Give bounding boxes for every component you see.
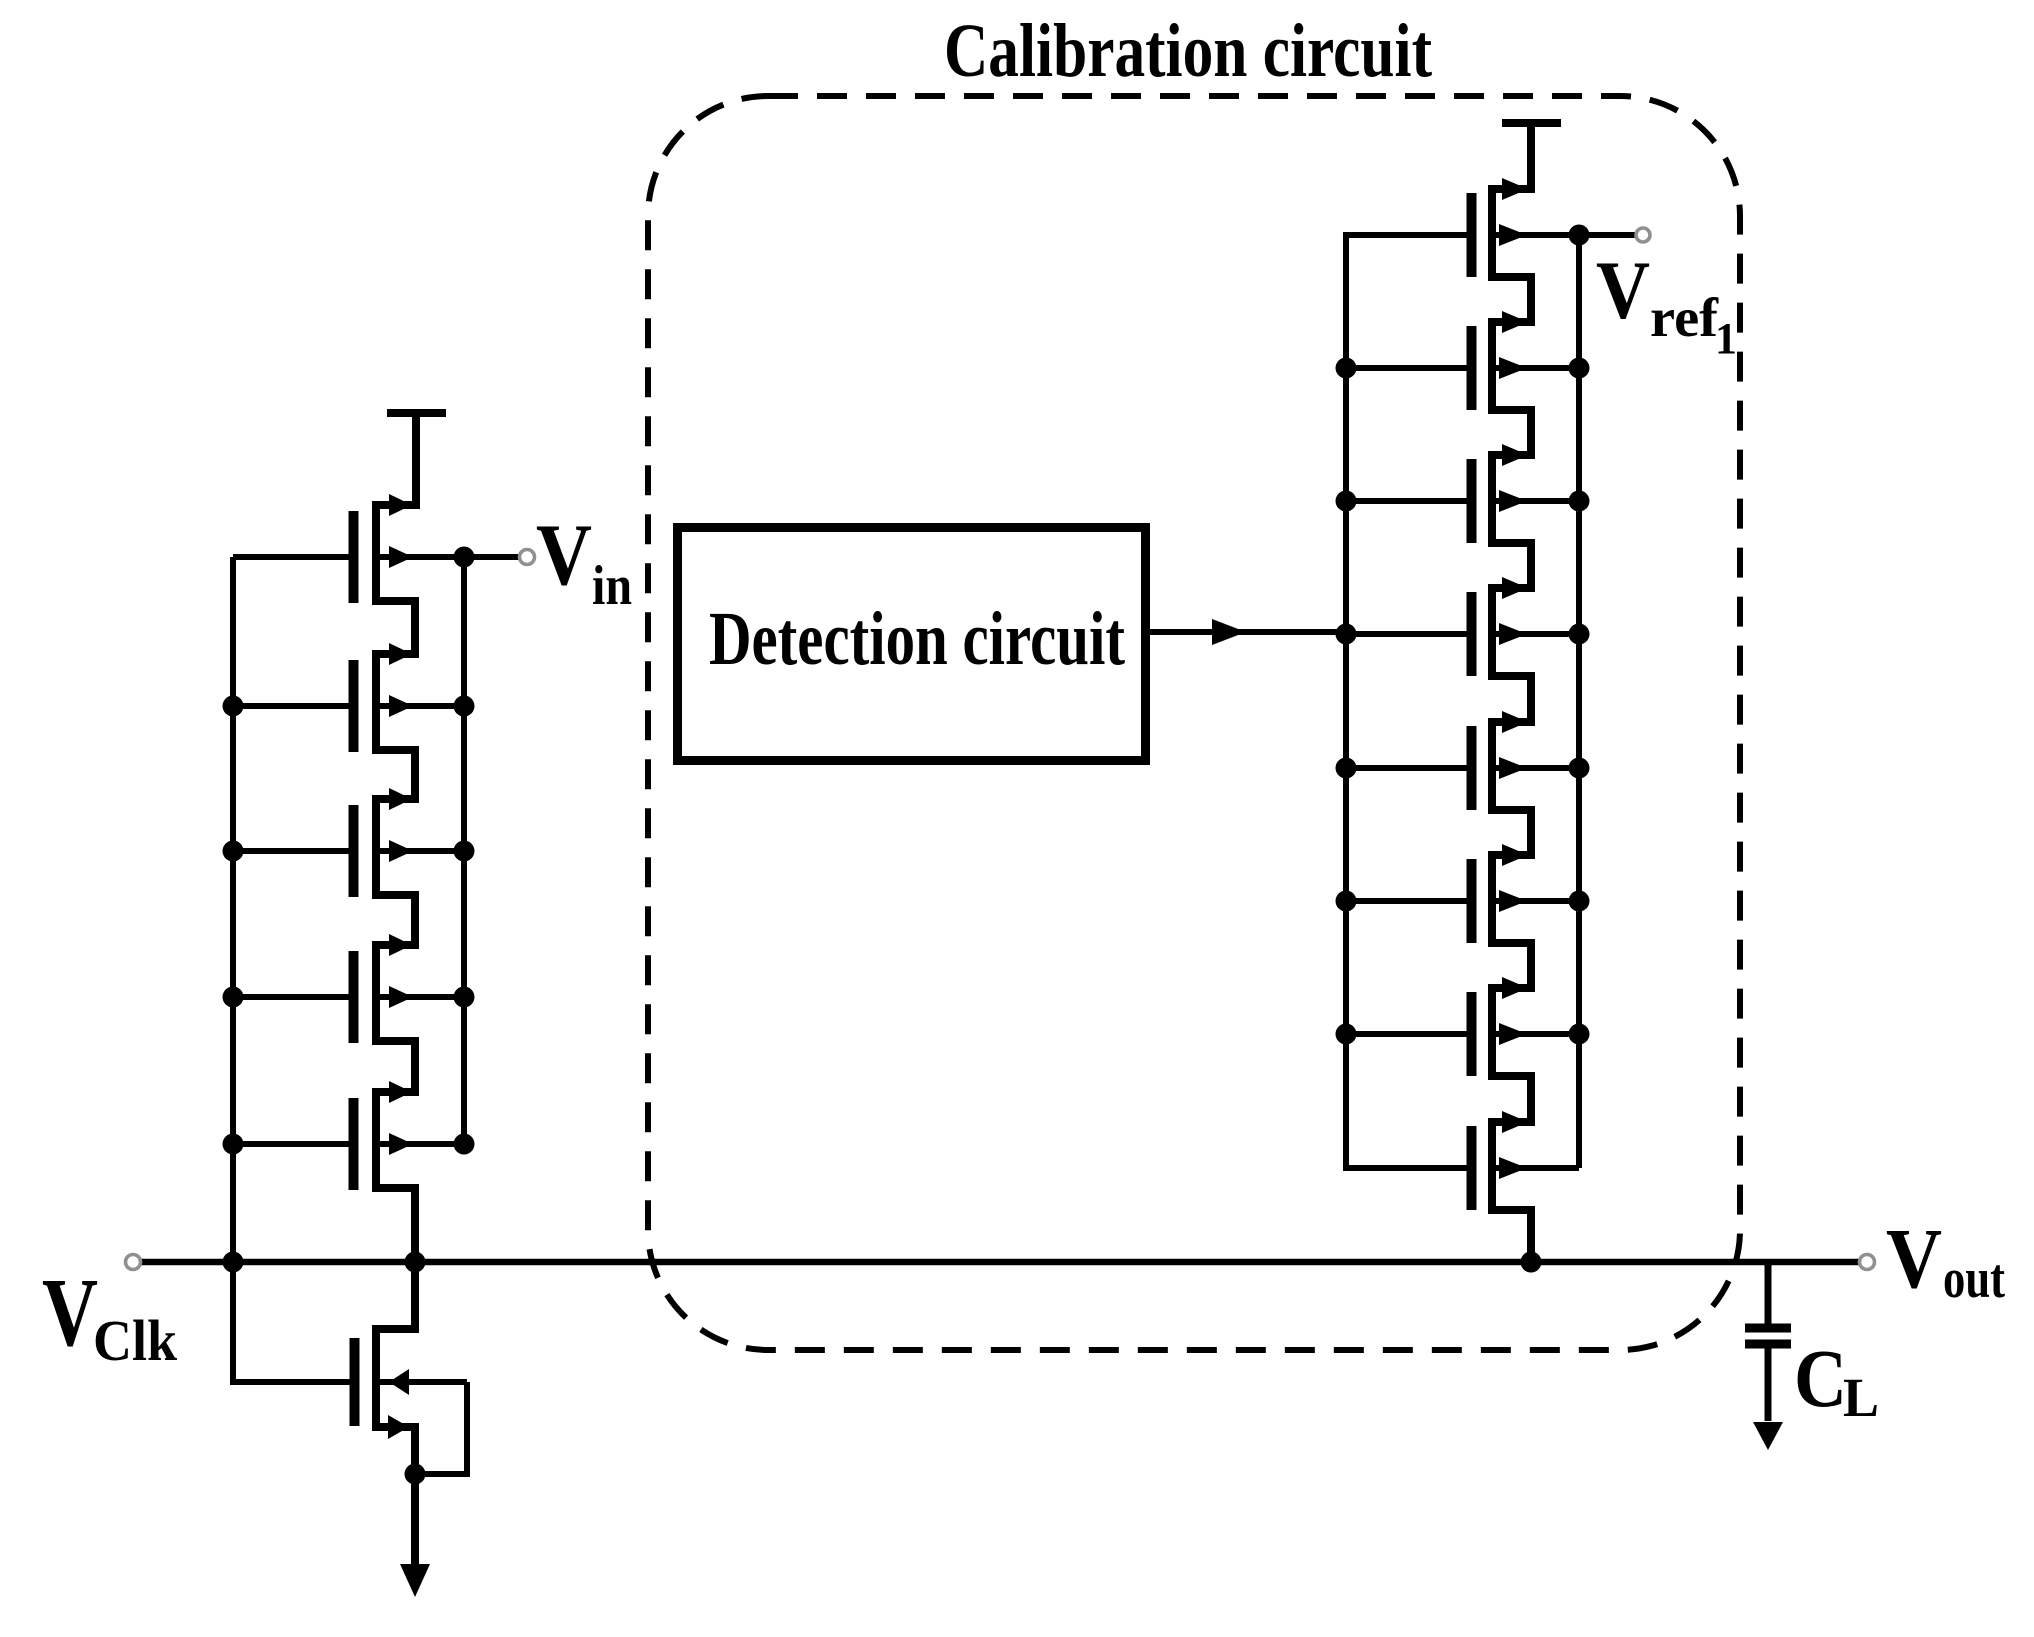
- transistor M2 (left chain, NMOS): [354, 643, 465, 752]
- svg-text:V: V: [1596, 244, 1650, 336]
- wire detection output arrow: [1146, 629, 1346, 635]
- wire V_in tap: [464, 554, 519, 560]
- wire V_Clk input line: [141, 1259, 1860, 1266]
- terminal V_out: [1860, 1255, 1875, 1270]
- ground arrow (C_L): [1753, 1422, 1783, 1450]
- terminal V_ref1: [1636, 228, 1650, 242]
- svg-text:1: 1: [1715, 314, 1737, 363]
- wire M6 source down: [372, 1427, 415, 1565]
- wire M2 source to M3 drain: [372, 750, 415, 799]
- wire M3 source to M4 drain: [372, 895, 415, 945]
- wire M10 source to M11 drain: [1488, 676, 1531, 722]
- wire M4 source to M5 drain: [372, 1041, 415, 1092]
- svg-text:L: L: [1843, 1367, 1879, 1428]
- svg-text:out: out: [1943, 1248, 2005, 1310]
- transistor M6 (left chain bottom, PMOS): [355, 1329, 468, 1427]
- svg-text:Calibration circuit: Calibration circuit: [944, 9, 1432, 93]
- gate wire M9: [1346, 498, 1468, 504]
- svg-text:C: C: [1794, 1332, 1847, 1424]
- dashed boundary: Calibration circuit block: [648, 96, 1740, 1350]
- wire M9 source to M10 drain: [1488, 543, 1531, 588]
- gate wire M5 to V_Clk bus: [233, 1141, 350, 1147]
- wire M11 source to M12 drain: [1488, 810, 1531, 855]
- transistor M13 (right chain, NMOS): [1472, 977, 1580, 1076]
- gate wire M8: [1346, 365, 1468, 371]
- gate wire M13: [1346, 1031, 1468, 1037]
- right bulk bus (V_in node): [461, 557, 467, 1144]
- node dots bulk bus (right chain): [1569, 225, 1590, 246]
- wire M1 source to M2 drain: [372, 601, 415, 654]
- gate wire M4 to V_Clk bus: [233, 994, 350, 1000]
- transistor M12 (right chain, NMOS): [1472, 844, 1580, 943]
- gate wire M12: [1346, 898, 1468, 904]
- transistor M1 (left chain, NMOS): [354, 494, 465, 603]
- wire M13 source to M14 drain: [1488, 1076, 1531, 1122]
- svg-text:V: V: [42, 1259, 98, 1366]
- svg-text:Detection circuit: Detection circuit: [709, 597, 1125, 681]
- block Detection circuit: [678, 528, 1146, 761]
- transistor M10 (right chain, NMOS): [1472, 577, 1580, 676]
- terminal V_in: [520, 550, 535, 565]
- wire M6 bulk to source loop: [415, 1382, 467, 1474]
- transistor M11 (right chain, NMOS): [1472, 711, 1580, 810]
- gate wire M1 to V_Clk bus: [233, 554, 350, 560]
- wire M8 source to M9 drain: [1488, 410, 1531, 455]
- wire M6 drain from V_Clk node: [372, 1262, 415, 1329]
- node dots gate bus (right chain): [1336, 358, 1357, 379]
- svg-text:in: in: [592, 555, 632, 617]
- right bulk bus (V_ref1 node): [1576, 235, 1582, 1168]
- gate wire M2 to V_Clk bus: [233, 703, 350, 709]
- wire V_ref1 tap: [1579, 232, 1636, 238]
- left gate bus (V_Clk to all gates): [233, 557, 350, 1382]
- node V_Clk / gate bus junction: [405, 1252, 426, 1273]
- transistor M3 (left chain, NMOS): [354, 788, 465, 897]
- node dots on right bulk bus: [454, 547, 475, 568]
- gate wire M7: [1346, 232, 1468, 238]
- transistor M8 (right chain, NMOS): [1472, 311, 1580, 410]
- wire M7 source to M8 drain: [1488, 277, 1531, 322]
- svg-text:ref: ref: [1650, 287, 1719, 348]
- gate wire M3 to V_Clk bus: [233, 848, 350, 854]
- gate wire M11: [1346, 765, 1468, 771]
- svg-text:V: V: [536, 507, 592, 604]
- capacitor C_L: [1745, 1262, 1791, 1421]
- node dots on left gate bus: [223, 696, 244, 717]
- node M6 source/bulk junction: [405, 1464, 426, 1485]
- gate wire M10: [1346, 631, 1468, 637]
- transistor M9 (right chain, NMOS): [1472, 444, 1580, 543]
- wire M5 source to V_Clk line node: [372, 1188, 415, 1262]
- power supply VDD bar (left chain): [387, 409, 446, 417]
- wire M12 source to M13 drain: [1488, 943, 1531, 988]
- node M14 source on V_out line: [1521, 1252, 1542, 1273]
- gate wire M14: [1346, 1165, 1468, 1171]
- power supply VDD bar (right chain): [1502, 119, 1561, 127]
- transistor M7 (right chain, NMOS): [1472, 178, 1580, 277]
- ground arrow (left chain source): [400, 1564, 430, 1597]
- wire VDD to M7 drain: [1488, 123, 1531, 189]
- transistor M4 (left chain, NMOS): [354, 934, 465, 1043]
- transistor M14 (right chain, NMOS): [1472, 1111, 1580, 1210]
- wire VDD to M1 drain: [372, 413, 416, 505]
- wire M14 source to V_out line: [1488, 1210, 1531, 1262]
- svg-text:Clk: Clk: [93, 1308, 178, 1373]
- transistor M5 (left chain, NMOS): [354, 1081, 465, 1190]
- terminal V_Clk: [126, 1255, 141, 1270]
- left gate bus (right chain): [1346, 235, 1468, 1168]
- svg-text:V: V: [1886, 1210, 1942, 1306]
